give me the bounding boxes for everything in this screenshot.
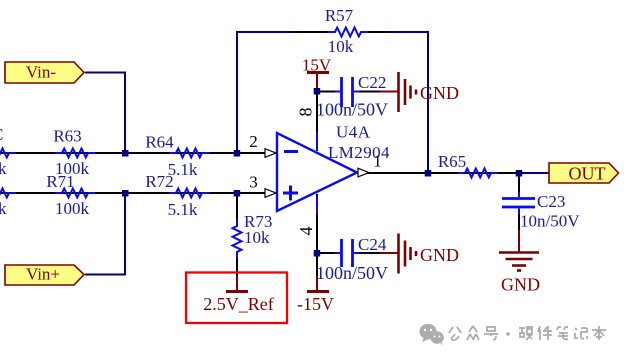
label R73 (244, 212, 272, 231)
designator U4A (336, 123, 371, 142)
svg-text:C23: C23 (537, 192, 565, 211)
value 100n/50V C24 (316, 263, 388, 283)
pin 2 arrow (265, 149, 276, 158)
junction 15V C22 (314, 88, 321, 95)
svg-text:100k: 100k (55, 199, 90, 218)
wire Vin- to node A (85, 73, 125, 154)
glyph ji (575, 328, 587, 339)
svg-text:10k: 10k (244, 228, 270, 247)
partial resistor left edge row1 (0, 149, 16, 158)
watermark wechat logo (419, 324, 443, 346)
svg-text:5.1k: 5.1k (168, 200, 198, 219)
net 15V (302, 56, 332, 75)
wire C22 to GND maroon lead (380, 91, 398, 93)
svg-text:100n/50V: 100n/50V (316, 263, 388, 283)
wire 2.5V_Ref maroon lead (236, 276, 238, 292)
wire feedback right vertical (427, 31, 429, 173)
resistor R64 (169, 149, 209, 158)
label C24 (358, 235, 387, 254)
pin number 2 (249, 132, 258, 151)
partial label C top left edge (0, 125, 3, 144)
junction -15V C24 (314, 250, 321, 257)
glyph ben (592, 326, 606, 340)
node D junction R73 row2 (234, 190, 241, 197)
glyph hao (484, 327, 498, 340)
svg-text:10n/50V: 10n/50V (520, 212, 580, 231)
resistor R72 (169, 189, 209, 198)
glyph bi (557, 327, 568, 339)
wire pin8 vertical (316, 91, 318, 151)
svg-text:R72: R72 (145, 172, 173, 191)
wire feedback left vertical (236, 32, 238, 153)
net GND at C23 (501, 275, 540, 295)
svg-text:1: 1 (373, 152, 382, 171)
wire 15V lead maroon (316, 73, 318, 91)
port OUT (549, 163, 619, 184)
wire pin4 vertical (316, 194, 318, 277)
label R57 (325, 6, 354, 25)
wire C23 vertical (518, 173, 520, 231)
net 2.5V_Ref (203, 294, 274, 314)
svg-text:GND: GND (420, 245, 459, 265)
resistor R57 (328, 28, 368, 37)
resistor R73 vertical (233, 219, 242, 259)
value 5.1k R72 (168, 200, 198, 219)
value 100n/50V C22 (316, 100, 388, 120)
svg-text:3: 3 (249, 173, 258, 192)
svg-text:R71: R71 (46, 172, 74, 191)
svg-text:10k: 10k (328, 37, 354, 56)
label R72 (145, 172, 173, 191)
ground symbol at C24 (399, 234, 417, 274)
junction C23 output (516, 170, 523, 177)
power -15V bar (307, 290, 329, 293)
svg-text:-15V: -15V (297, 294, 334, 314)
value 10k R73 (244, 228, 270, 247)
net -15V (297, 294, 334, 314)
label C22 (358, 73, 386, 92)
label R65 (438, 152, 466, 171)
wire output node to OUT port (519, 172, 550, 174)
glyph jian (538, 326, 552, 340)
svg-text:OUT: OUT (569, 164, 606, 184)
label R71 (46, 172, 74, 191)
wire Vin+ to node C (85, 193, 125, 275)
watermark text strokes (449, 326, 606, 340)
node C junction Vin+ row2 (122, 190, 129, 197)
svg-text:Vin+: Vin+ (26, 265, 60, 284)
svg-text:R57: R57 (325, 6, 354, 25)
svg-text:R63: R63 (53, 127, 81, 146)
node A junction Vin- row1 (122, 150, 129, 157)
pin 1 arrow (358, 168, 369, 177)
wire C22 row horizontal (317, 91, 381, 93)
wire C24 row horizontal (317, 252, 381, 254)
svg-text:100n/50V: 100n/50V (316, 100, 388, 120)
pin number 8 rotated (296, 108, 316, 117)
svg-text:C24: C24 (358, 235, 387, 254)
svg-text:R65: R65 (438, 152, 466, 171)
wire feedback top right segment (389, 31, 428, 33)
svg-text:4: 4 (296, 227, 316, 236)
svg-text:R64: R64 (145, 133, 174, 152)
part LM2904 (328, 143, 390, 162)
capacitor C23 (502, 192, 535, 214)
separator dot (506, 332, 510, 336)
wire C24 to GND maroon lead (380, 252, 398, 254)
wire R73 bottom connection (236, 258, 238, 277)
power 2.5V_Ref bar (226, 290, 248, 293)
label R63 (53, 127, 81, 146)
wire -15V maroon lead (316, 276, 318, 292)
net GND at C22 (420, 83, 459, 103)
wire row1 inverting input horizontal (0, 152, 266, 154)
node B junction feedback row1 (234, 150, 241, 157)
pin number 1 (373, 152, 382, 171)
svg-text:2: 2 (249, 132, 258, 151)
pin 3 arrow (265, 189, 276, 198)
pin number 4 rotated (296, 227, 316, 236)
svg-text:C: C (0, 125, 3, 144)
svg-text:C22: C22 (358, 73, 386, 92)
wire row2 non-inverting input horizontal (0, 192, 266, 194)
wire R57 right pin (367, 31, 390, 33)
value 10k R57 (328, 37, 354, 56)
wire C23 to GND maroon lead (518, 230, 520, 253)
junction feedback output (425, 170, 432, 177)
port Vin+ (5, 265, 84, 286)
pin 8 blue segment (316, 132, 318, 151)
glyph ying (519, 327, 533, 340)
power 15V bar (307, 71, 329, 74)
resistor R63 (55, 149, 95, 158)
capacitor C22 (335, 77, 359, 107)
value 10n/50V C23 (520, 212, 580, 231)
glyph zhong (467, 326, 479, 340)
svg-text:GND: GND (420, 83, 459, 103)
wire R57 left pin (291, 31, 329, 33)
red highlight box 2.5V_Ref (186, 273, 287, 324)
value 100k R71 (55, 199, 90, 218)
label C23 (537, 192, 565, 211)
svg-text:k: k (0, 199, 7, 218)
partial label k row1 left edge (0, 159, 7, 178)
glyph gong (449, 327, 461, 340)
wire op-amp output row (358, 172, 520, 174)
ground symbol at C23 (499, 253, 539, 271)
value 5.1k R64 (168, 160, 198, 179)
pin number 3 (249, 173, 258, 192)
partial label k row2 left edge (0, 199, 7, 218)
resistor R65 (458, 169, 498, 178)
svg-text:GND: GND (501, 275, 540, 295)
capacitor C24 (335, 239, 359, 267)
value 100k R63 (55, 159, 90, 178)
op-amp U4A triangle (277, 133, 357, 211)
port Vin- (5, 62, 84, 83)
pin 4 blue segment (316, 196, 318, 214)
ground symbol at C22 (399, 72, 417, 112)
label R64 (145, 133, 174, 152)
net GND at C24 (420, 245, 459, 265)
svg-text:k: k (0, 159, 7, 178)
wire R73 top connection (236, 193, 238, 220)
svg-text:15V: 15V (302, 56, 332, 75)
svg-text:8: 8 (296, 108, 316, 117)
partial resistor left edge row2 (0, 189, 16, 198)
resistor R71 (55, 189, 95, 198)
wire feedback top left segment (236, 31, 292, 33)
svg-text:U4A: U4A (336, 123, 371, 142)
svg-text:2.5V_Ref: 2.5V_Ref (203, 294, 274, 314)
svg-text:Vin-: Vin- (26, 63, 56, 82)
